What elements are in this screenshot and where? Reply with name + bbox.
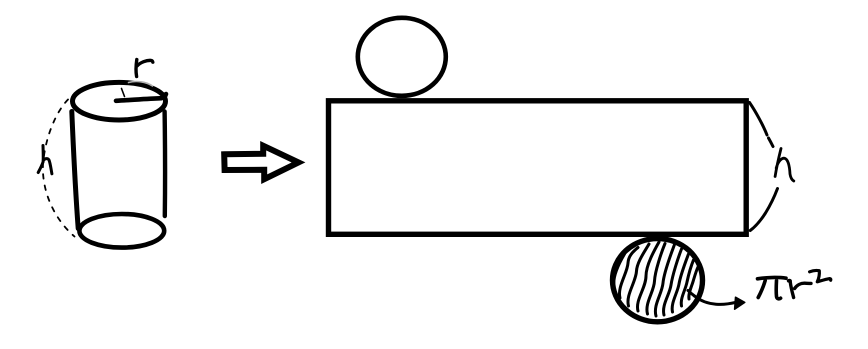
rectangle (unrolled lateral surface) [329,101,747,235]
label pi [758,277,787,298]
cylinder left side wire [72,112,78,229]
cylinder top ellipse [73,82,166,120]
block arrow [224,146,298,180]
label exponent 2 [810,270,831,281]
dashed height arc [43,100,75,237]
top circle [358,18,446,96]
brace lower stroke [750,189,777,231]
radius line [116,94,166,101]
arrow to area label [695,296,737,304]
hatched circle (base disc) [613,239,703,322]
brace upper stroke (right h) [750,103,774,147]
label r (cylinder radius) [136,60,153,77]
arrowhead [735,297,745,309]
cylinder right side wire [162,112,167,217]
label h (cylinder height) [38,146,52,174]
cylinder bottom ellipse [79,214,164,248]
arrow start stroke [688,291,695,297]
label r (squared radius) [789,281,812,298]
radius tick dash [122,89,125,97]
hatch strokes [614,242,698,316]
cylinder top ellipse faint overdraw [129,82,153,86]
label h (rectangle height) [775,149,794,182]
